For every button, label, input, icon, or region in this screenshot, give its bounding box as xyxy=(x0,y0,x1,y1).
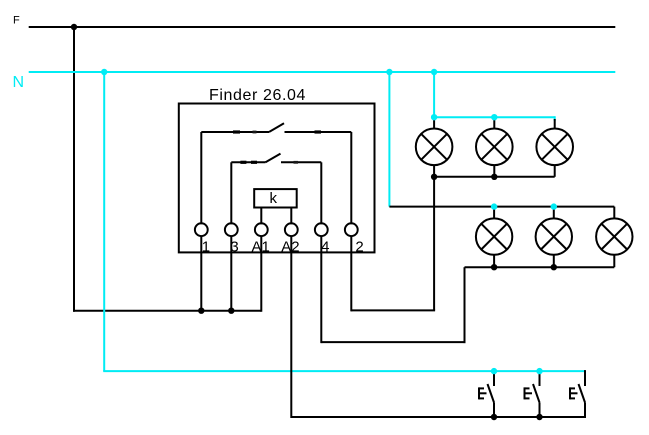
junction dot on N at x=389 xyxy=(386,69,392,75)
junction dot row1 bus lamp2 xyxy=(491,174,497,180)
wire terminal A1 drop xyxy=(260,236,262,312)
svg-text:Finder 26.04: Finder 26.04 xyxy=(209,87,306,104)
terminal 3 circle xyxy=(225,223,238,236)
push button S1 xyxy=(479,371,494,417)
lamp E3 row1 xyxy=(536,119,573,177)
terminal 4 circle xyxy=(315,223,328,236)
svg-text:N: N xyxy=(13,74,25,91)
svg-text:2: 2 xyxy=(355,239,363,256)
terminal label A1 xyxy=(252,239,270,256)
junction dot row2 bus lamp5 xyxy=(551,264,557,270)
junction dot row2 feed lamp5 cyan xyxy=(551,203,557,209)
junction dot row1 feed lamp1 xyxy=(431,114,437,120)
terminal label A2 xyxy=(281,239,299,256)
relay K1 outline box Finder 26.04 xyxy=(179,104,375,253)
wire N bottom horizontal to buttons xyxy=(103,370,585,372)
terminal 1 circle xyxy=(195,223,208,236)
junction dot cyan line S1 xyxy=(491,368,497,374)
wire terminal 1 drop xyxy=(200,236,202,311)
svg-text:1: 1 xyxy=(202,239,210,256)
wire terminal 3 drop xyxy=(230,236,232,311)
junction dot F bus terminal 3 xyxy=(228,308,234,314)
lamp row 1 bottom bus xyxy=(434,176,555,178)
wire N left vertical drop xyxy=(103,72,105,371)
contact K1 switch 3-4 xyxy=(231,154,321,225)
terminal label 1 xyxy=(202,239,210,256)
junction dot row1 feed lamp2 xyxy=(491,114,497,120)
terminal A2 circle xyxy=(285,223,298,236)
wire F vertical drop xyxy=(73,27,75,312)
junction dot row2 bus lamp4 xyxy=(491,264,497,270)
lamp E5 row2 xyxy=(536,207,572,268)
wire coil to terminal A2 xyxy=(290,208,292,225)
wire button bottom bus A2 to buttons xyxy=(291,416,585,418)
contact tick marks switch 2 xyxy=(240,161,298,164)
coil k label xyxy=(270,190,278,207)
terminal label 2 xyxy=(355,239,363,256)
svg-text:k: k xyxy=(270,190,278,207)
push button S3 xyxy=(570,370,585,418)
terminal label 3 xyxy=(230,239,238,256)
wire N neutral line xyxy=(29,71,616,73)
relay K1 name label Finder 26.04 xyxy=(209,87,306,104)
junction dot row2 feed lamp4 cyan xyxy=(491,203,497,209)
wire N drop to lamp row 1 feed xyxy=(433,72,435,117)
junction dot button bus S1 xyxy=(491,414,497,420)
terminal 2 circle xyxy=(345,223,358,236)
wire terminal 2 drop xyxy=(350,236,352,311)
junction dot on F at x=74 xyxy=(71,24,77,30)
net F label xyxy=(13,15,20,27)
net N label xyxy=(13,74,25,91)
contact K1 switch 1-2 xyxy=(201,123,351,224)
wire terminal A2 drop to button bus xyxy=(290,236,292,418)
wire terminal 4 to lamp row 2 return xyxy=(321,267,465,343)
junction dot on N at x=434 xyxy=(431,69,437,75)
junction dot on N at x=104 xyxy=(101,69,107,75)
terminal label 4 xyxy=(321,239,329,256)
junction dot button bus S2 xyxy=(536,414,542,420)
wire F phase line xyxy=(29,26,616,28)
wire terminal 4 drop xyxy=(320,236,322,343)
wire lamp row 1 cyan feed bus xyxy=(434,116,555,121)
wire F bottom bus to terminals 1 3 A1 xyxy=(73,310,261,312)
terminal A1 circle xyxy=(255,223,268,236)
svg-text:4: 4 xyxy=(321,239,329,256)
junction dot cyan line S2 xyxy=(536,368,542,374)
junction dot F bus terminal 1 xyxy=(198,308,204,314)
junction dot row1 bus lamp1 xyxy=(431,174,437,180)
wire N drop to lamp row 2 feed xyxy=(388,72,390,207)
svg-text:F: F xyxy=(13,15,20,27)
wire coil to terminal A1 xyxy=(260,208,262,225)
lamp E2 row1 xyxy=(476,117,513,177)
wire terminal 2 to lamp row 1 return xyxy=(351,177,435,311)
push button S2 xyxy=(525,371,540,417)
lamp row 2 bottom bus xyxy=(465,266,615,268)
lamp E1 row1 xyxy=(416,117,453,177)
lamp E4 row2 xyxy=(476,207,512,268)
lamp E6 row2 xyxy=(596,207,632,268)
contact tick marks switch 1 xyxy=(233,130,321,133)
lamp row 2 feed bus xyxy=(389,206,614,208)
coil k box xyxy=(254,189,297,207)
